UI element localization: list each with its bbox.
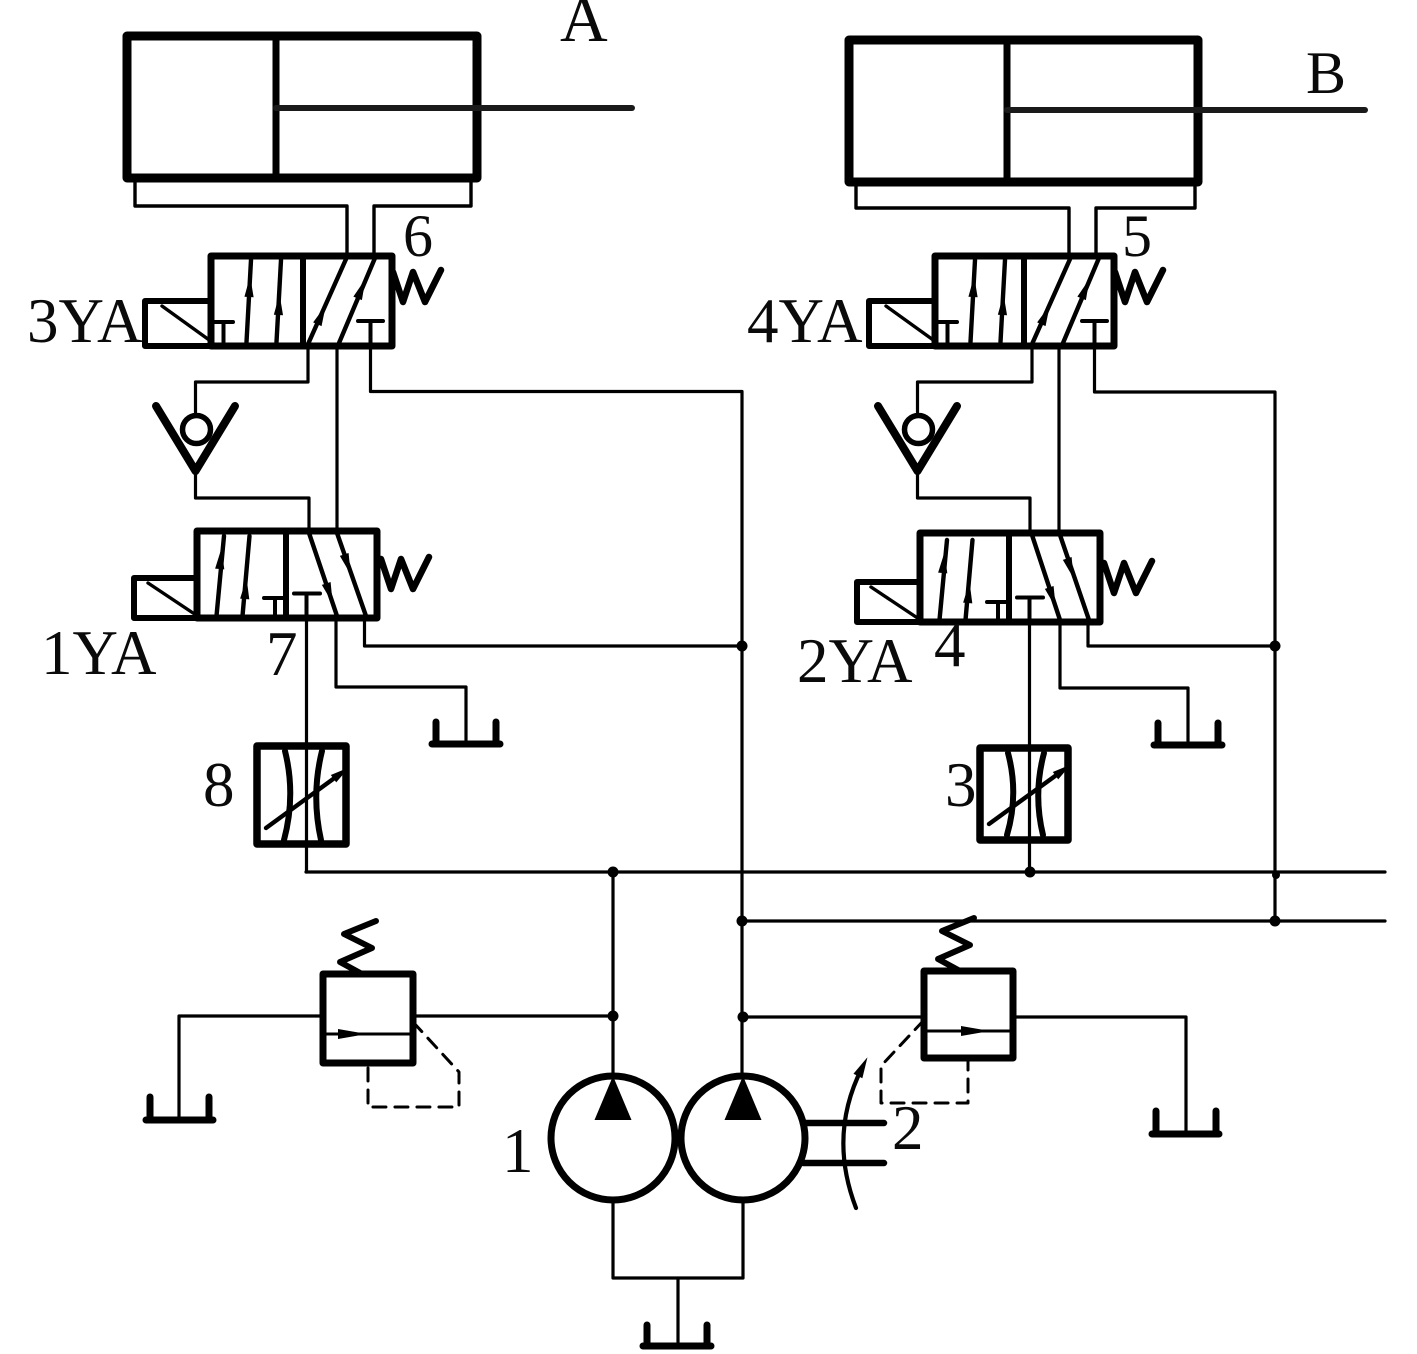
junction dot pump1 riser / left relief — [608, 1011, 619, 1022]
solenoid 3YA — [145, 301, 212, 346]
wire valve5 portB down to valve4 — [1057, 346, 1060, 533]
wire valve5 portA to check valve — [918, 346, 1033, 412]
valve 5 left-box flow arrows — [971, 260, 1006, 342]
tank under valve 7 — [432, 722, 500, 744]
tank under valve 4 — [1154, 723, 1222, 745]
svg-text:B: B — [1306, 40, 1346, 106]
svg-text:1YA: 1YA — [41, 618, 157, 688]
throttle valve 8 — [257, 746, 346, 844]
valve 7 left-box blocked port T — [264, 598, 285, 616]
valve 6 right-box crossed arrows — [309, 258, 376, 343]
throttle valve 3 — [980, 748, 1068, 840]
junction dot right drop / bus1 — [1272, 871, 1280, 879]
valve 6 right-box blocked port T — [358, 321, 383, 344]
svg-text:3: 3 — [945, 750, 977, 820]
wire valve6 portC right and down to pump 2 — [371, 346, 743, 1076]
wire pump1 riser to bus1 — [611, 872, 614, 1076]
directional valve 4 body — [920, 533, 1100, 622]
cylinder B piston — [1004, 40, 1011, 182]
pump 1 circle — [551, 1076, 675, 1200]
wire right relief to tank — [1013, 1017, 1186, 1131]
valve 6 left-box flow arrows — [247, 260, 282, 342]
svg-text:A: A — [560, 0, 608, 56]
cylinder B rod — [1007, 107, 1365, 113]
directional valve 6 body — [211, 256, 392, 346]
svg-text:4: 4 — [934, 610, 966, 680]
check valve (left) output wire to valve7 — [196, 468, 310, 531]
wire left relief tank branch — [179, 1016, 323, 1117]
valve 5 right-box blocked port T — [1082, 321, 1107, 344]
solenoid 1YA — [134, 578, 197, 618]
wire valve4 right port to pressure line — [1088, 622, 1275, 646]
pump 2 variable-displacement arc arrow — [843, 1068, 862, 1208]
wire pumps to common tank — [613, 1200, 743, 1342]
junction dot right drop / bus2 — [1270, 916, 1281, 927]
relief valve (right) spring — [938, 918, 974, 971]
wire left relief to pump1 riser — [413, 1014, 613, 1017]
cylinder A piston — [273, 36, 280, 178]
check valve (left) — [156, 406, 235, 471]
relief valve (left) spring — [340, 921, 376, 974]
valve 6 return spring — [393, 270, 441, 302]
valve 4 right-box crossed arrows — [1032, 535, 1089, 620]
svg-text:7: 7 — [266, 619, 298, 689]
svg-text:1: 1 — [502, 1116, 534, 1186]
junction dot bus1/throttle3 — [1025, 867, 1036, 878]
wire valve6 portA to check valve — [196, 346, 309, 412]
solenoid 4YA — [869, 301, 936, 346]
solenoid 2YA — [857, 582, 920, 622]
valve 6 left-box blocked port T — [214, 322, 233, 342]
pump 2 circle — [681, 1076, 805, 1200]
directional valve 5 body — [935, 256, 1114, 346]
relief valve (left) body — [323, 974, 413, 1063]
valve 7 right-box blocked port T — [294, 594, 320, 619]
wire pump2 riser to right relief — [743, 1015, 924, 1018]
svg-text:8: 8 — [203, 750, 235, 820]
junction dot valve7 line / pump2 riser — [737, 641, 748, 652]
valve 5 right-box crossed arrows — [1033, 258, 1100, 343]
tank under pumps — [643, 1325, 711, 1346]
relief valve (right) pilot line (dashed) — [881, 1020, 968, 1103]
directional valve 7 body — [197, 531, 377, 618]
valve 4 right-box blocked port T — [1017, 598, 1043, 623]
svg-text:2YA: 2YA — [797, 626, 913, 696]
check valve (right) — [878, 406, 957, 471]
pump 1 flow triangle — [595, 1076, 632, 1120]
valve 4 left-box blocked port T — [987, 602, 1008, 620]
junction dot bus2 start — [737, 916, 748, 927]
cylinder B mounting plate + pipes to valve 5 — [856, 182, 1195, 257]
svg-text:5: 5 — [1122, 203, 1152, 269]
check valve (right) output wire to valve4 — [918, 468, 1031, 533]
svg-text:4YA: 4YA — [747, 286, 863, 356]
valve 4 left-box flow arrows — [940, 540, 973, 620]
junction dot bus1/pump1 — [608, 867, 619, 878]
pump 2 flow triangle — [725, 1076, 762, 1120]
wire valve5 portC right and down to bus2 — [1095, 346, 1276, 921]
valve 5 return spring — [1115, 270, 1163, 302]
tank at right relief valve — [1152, 1111, 1219, 1134]
wire valve7 blocked-T port down through throttle 8 to bus1 — [305, 618, 308, 872]
wire valve7 tank port to tank — [336, 618, 466, 740]
valve 7 left-box flow arrows — [217, 536, 250, 616]
valve 7 return spring — [381, 557, 429, 589]
relief valve (right) body — [924, 971, 1013, 1058]
wire valve6 portB down to valve7 — [335, 346, 338, 531]
valve 7 right-box crossed arrows — [309, 533, 366, 616]
pressure bus line 1 (pump 1) — [306, 870, 1385, 873]
relief valve (left) flow arrow — [338, 1029, 367, 1039]
relief valve (left) pilot line (dashed) — [368, 1022, 459, 1107]
valve 5 left-box blocked port T — [938, 322, 957, 342]
junction dot valve4 line / right drop — [1270, 641, 1281, 652]
cylinder A mounting plate + pipes to valve 6 — [135, 178, 471, 256]
cylinder B body — [849, 40, 1365, 182]
wire valve7 right port to pressure line — [365, 618, 743, 646]
tank at left relief valve — [146, 1097, 213, 1120]
valve 4 return spring — [1104, 561, 1152, 593]
wire valve4 tank port to tank — [1060, 622, 1188, 741]
cylinder A rod — [276, 105, 632, 111]
junction dot pump2 riser / right relief — [738, 1012, 749, 1023]
wire valve4 blocked-T port down through throttle 3 to bus1 — [1028, 622, 1031, 872]
pressure bus line 2 (pump 2) — [742, 919, 1385, 922]
svg-text:6: 6 — [403, 203, 433, 269]
pump 2 shaft lines — [803, 1123, 884, 1163]
relief valve (right) flow arrow — [961, 1026, 990, 1036]
svg-text:3YA: 3YA — [27, 286, 143, 356]
cylinder A body — [127, 36, 632, 178]
